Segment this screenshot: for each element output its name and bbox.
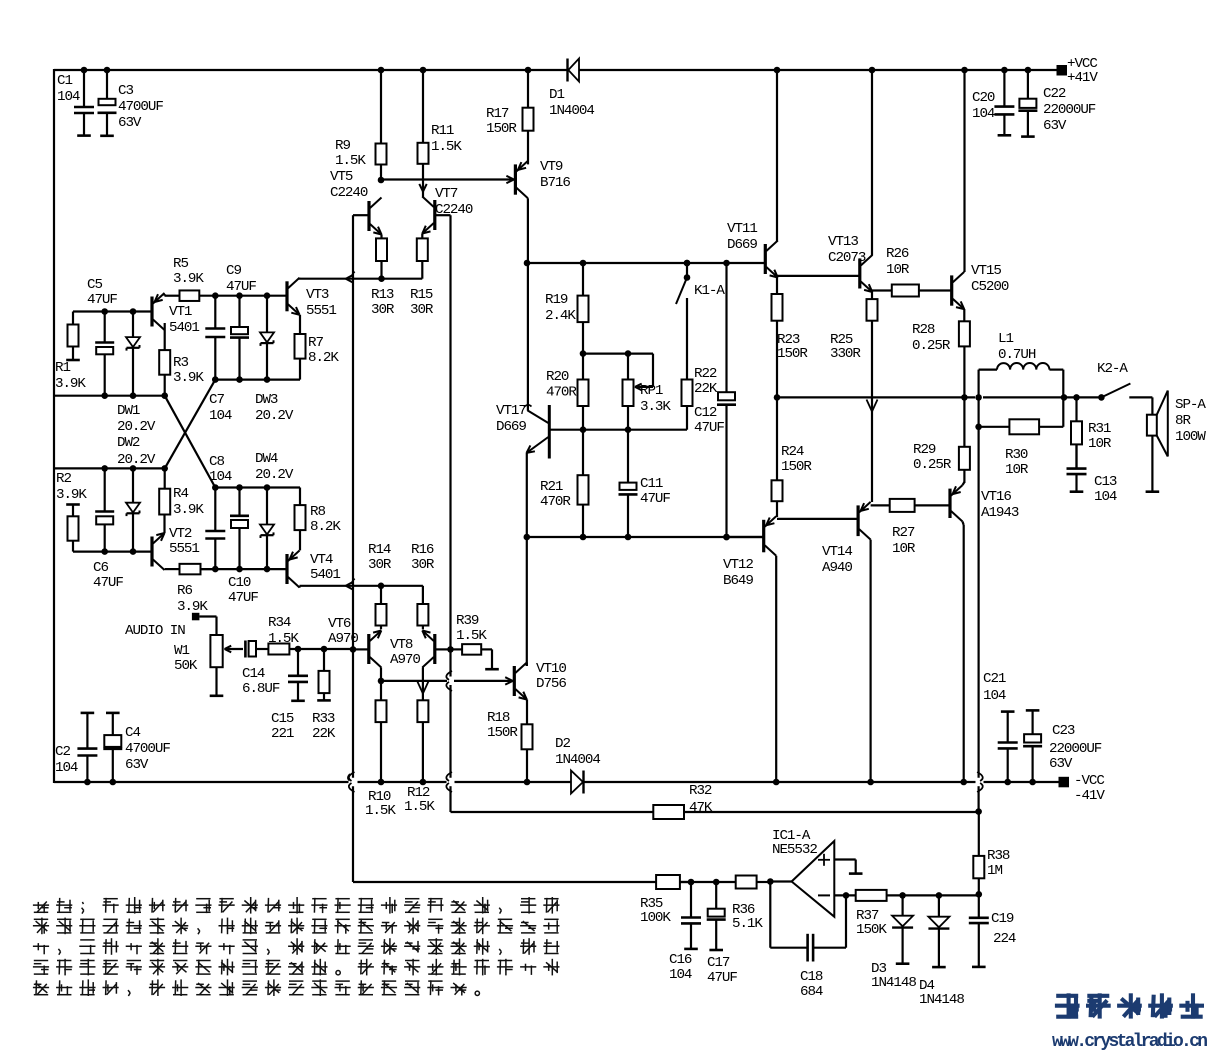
wire C8 block top [212,484,300,491]
svg-text:470R: 470R [540,494,571,510]
text declaration (Chinese) [33,897,560,996]
label C2 [55,744,78,776]
wire IC1 output [767,878,792,885]
wire servo input [353,881,656,883]
junction vmark VT8 collector [417,682,428,694]
label R16 [411,542,435,573]
wire VT10 base [381,680,511,682]
label VT1 [169,304,199,336]
resistor R33 [317,649,331,700]
svg-text:www.crystalradio.cn: www.crystalradio.cn [1052,1032,1208,1052]
svg-text:47UF: 47UF [228,590,258,606]
transistor VT10 [514,663,527,700]
svg-text:5401: 5401 [169,320,199,336]
svg-text:D2: D2 [555,736,570,752]
label R15 [410,287,434,318]
svg-text:63V: 63V [118,115,142,131]
zener DW1 [126,312,140,396]
svg-text:47UF: 47UF [694,420,724,436]
svg-text:10R: 10R [1005,462,1029,478]
svg-text:0.7UH: 0.7UH [998,347,1036,363]
resistor R20 [578,354,589,430]
svg-text:VT8: VT8 [390,637,413,653]
label R14 [368,542,392,573]
transistor VT15 [952,272,965,309]
label R20 [546,369,577,401]
capacitor C14 [245,641,268,658]
wire VT6 base [350,646,369,653]
svg-text:3.9K: 3.9K [55,376,86,392]
diode D1 [568,59,580,82]
resistor R36 [736,876,771,889]
svg-text:104: 104 [972,106,995,122]
svg-text:1.5K: 1.5K [268,631,299,647]
svg-text:8R: 8R [1175,413,1191,429]
label W1 [174,643,198,674]
label VT12 [723,557,753,589]
label R23 [777,332,808,362]
svg-text:R15: R15 [410,287,433,303]
wire VT13 collector [869,67,876,256]
svg-text:VT3: VT3 [306,287,329,303]
svg-text:-41V: -41V [1074,788,1105,804]
svg-text:C17: C17 [707,955,730,971]
svg-text:63V: 63V [1043,118,1067,134]
wire VT14 collector down [867,540,874,786]
speaker SP-A [1146,391,1168,492]
label R33 [312,711,336,742]
svg-text:30R: 30R [411,557,435,573]
svg-text:C2240: C2240 [435,202,473,218]
svg-text:C9: C9 [226,263,241,279]
svg-text:D1: D1 [549,87,564,103]
svg-text:VT1: VT1 [169,304,192,320]
label C3 [118,83,163,131]
svg-text:D756: D756 [536,676,566,692]
wire VT17 emitter down to VT10 collector [524,453,531,666]
wire C7 block bottom [212,376,300,383]
svg-text:VT11: VT11 [727,221,757,237]
resistor R3 [159,350,170,396]
svg-text:22000UF: 22000UF [1043,102,1096,118]
capacitor C21 [998,712,1018,786]
svg-text:R2: R2 [56,471,71,487]
svg-text:1.5K: 1.5K [431,139,462,155]
svg-text:R27: R27 [892,525,915,541]
transistor VT7 [422,197,435,234]
wire R17 to VT9 emitter [527,131,529,165]
resistor R24 [772,397,783,517]
wire VT1 emitter to R5 [165,294,180,296]
resistor R6 [180,564,216,575]
resistor R9 [376,67,387,184]
label SP-A [1175,397,1206,445]
wire VT4 collector [300,583,423,590]
svg-text:224: 224 [993,931,1016,947]
svg-text:R18: R18 [487,710,510,726]
svg-text:A940: A940 [822,560,852,576]
svg-text:8.2K: 8.2K [310,519,341,535]
svg-text:D669: D669 [496,419,526,435]
resistor R1 [66,312,80,361]
svg-text:3.9K: 3.9K [177,599,208,615]
svg-text:B649: B649 [723,573,753,589]
resistor R37 [856,890,979,901]
svg-text:22K: 22K [694,381,718,397]
svg-text:4700UF: 4700UF [118,99,163,115]
wire VT9 collector down VAS [524,198,531,411]
svg-text:R5: R5 [173,256,188,272]
label VT9 [540,159,570,191]
svg-text:W1: W1 [174,643,189,659]
svg-text:R38: R38 [987,848,1010,864]
wire VT16 collector down [960,522,967,786]
label R18 [487,710,518,741]
svg-text:221: 221 [271,726,294,742]
svg-text:R16: R16 [411,542,434,558]
svg-text:30R: 30R [371,302,395,318]
svg-text:C2240: C2240 [330,185,368,201]
junction arrow VT3 collector wire [346,272,355,283]
wire servo mid [680,879,736,886]
svg-text:R6: R6 [177,583,192,599]
svg-text:R13: R13 [371,287,394,303]
resistor R4 [159,468,170,514]
wire VT8 collector to R12 [422,668,424,701]
wire VT15 collector [961,67,968,272]
svg-text:0.25R: 0.25R [913,457,952,473]
wire +VCC top rail [54,69,1058,71]
svg-text:SP-A: SP-A [1175,397,1206,413]
label R7 [308,335,339,366]
label DW4 [255,451,294,483]
svg-text:VT10: VT10 [536,661,566,677]
svg-text:VT16: VT16 [981,489,1011,505]
svg-text:104: 104 [57,89,80,105]
svg-text:C8: C8 [209,454,224,470]
wire feedback R32 [451,811,654,813]
label R5 [173,256,204,287]
transistor VT2 [152,533,165,570]
svg-text:R29: R29 [913,442,936,458]
resistor R13 [376,238,387,278]
label C19 [991,911,1016,947]
svg-text:C15: C15 [271,711,294,727]
label R28 [912,322,951,354]
capacitor C15 [288,649,308,701]
wire output node [777,394,1105,401]
op-amp IC1-A [792,841,835,917]
label L1 [998,331,1036,363]
zener DW4 [260,488,274,570]
resistor R18 [522,724,533,785]
wire lower block bottom [73,548,152,555]
svg-text:R22: R22 [694,366,717,382]
label DW1 [117,403,156,435]
watermark logo text [1055,993,1204,1018]
resistor R27 [890,499,950,512]
svg-text:1.5K: 1.5K [335,153,366,169]
svg-text:C2: C2 [55,744,70,760]
wire IC1 noninv to ground [834,860,862,874]
label K2-A [1097,361,1128,377]
capacitor C7 [205,296,225,380]
svg-text:VT12: VT12 [723,557,753,573]
wire VAS bottom [527,534,764,541]
label C15 [271,711,294,742]
capacitor C16 [681,882,701,949]
svg-text:3.9K: 3.9K [56,487,87,503]
wire VT11 to VT13 base [777,275,860,277]
svg-text:20.2V: 20.2V [255,467,294,483]
svg-text:VT13: VT13 [828,234,858,250]
svg-text:5.1K: 5.1K [732,916,763,932]
label RP1 [640,383,671,415]
wire VT10 emitter to R18 [526,700,528,725]
potentiometer RP1 [623,354,654,430]
resistor R38 [973,812,984,898]
svg-text:C2073: C2073 [828,250,866,266]
svg-text:5551: 5551 [306,303,336,319]
resistor R12 [417,700,428,785]
hop x450 over VT10 base wire [446,671,452,691]
hop x978 over -VCC rail [977,772,983,792]
capacitor C9 [230,296,249,380]
capacitor C23 [1023,710,1042,785]
svg-text:A970: A970 [328,631,358,647]
label R4 [173,486,204,518]
svg-text:150K: 150K [856,922,887,938]
svg-text:R30: R30 [1005,447,1028,463]
svg-text:10R: 10R [886,262,910,278]
wire -VCC bottom rail [54,781,1060,783]
svg-text:1N4004: 1N4004 [555,752,600,768]
wire VT6 collector to R10 [378,668,385,701]
label VT17 [496,403,526,435]
wire K2-A to speaker [1129,396,1152,398]
svg-text:150R: 150R [781,459,812,475]
label VT11 [727,221,757,253]
svg-text:C3: C3 [118,83,133,99]
wire upper block bottom [54,392,168,399]
label VT4 [310,552,340,583]
label C22 [1043,86,1096,134]
wire VT8 base [435,646,454,653]
svg-text:VT17: VT17 [496,403,526,419]
resistor R34 [268,644,353,655]
svg-text:104: 104 [55,760,78,776]
resistor R32 [653,805,978,819]
label R13 [371,287,395,318]
wire VT15 emitter to R28 [963,309,965,321]
svg-text:1.5K: 1.5K [404,799,435,815]
svg-text:5551: 5551 [169,541,199,557]
svg-text:150R: 150R [486,121,517,137]
wire lower block top [54,465,168,472]
label R17 [486,106,517,137]
transistor VT17 [524,405,549,459]
label DW3 [255,392,294,424]
wire mirror bases [381,178,512,180]
svg-text:C13: C13 [1094,474,1117,490]
wire left border vertical [53,69,55,783]
svg-text:150R: 150R [487,725,518,741]
svg-text:4700UF: 4700UF [125,741,170,757]
resistor R31 [1071,397,1082,468]
wire diagonal lower-to-upper [165,380,216,469]
label C20 [972,90,995,122]
label VT15 [971,263,1009,295]
label C21 [983,671,1006,704]
capacitor C11 [619,430,638,537]
label C23 [1049,723,1102,772]
capacitor C19 [969,894,989,967]
svg-text:C22: C22 [1043,86,1066,102]
diode D2 [571,771,584,794]
svg-text:VT9: VT9 [540,159,563,175]
svg-text:C1: C1 [57,73,72,89]
svg-text:50K: 50K [174,658,198,674]
resistor R22 [682,380,693,430]
svg-text:104: 104 [983,688,1006,704]
wire output down to feedback [975,427,982,815]
label VT13 [828,234,866,266]
label R34 [268,615,299,647]
svg-text:C21: C21 [983,671,1006,687]
capacitor C1 [74,67,94,136]
transistor VT13 [860,255,873,292]
resistor R15 [417,238,428,278]
svg-text:DW3: DW3 [255,392,278,408]
svg-text:VT14: VT14 [822,544,852,560]
label R12 [404,785,435,815]
power terminal -VCC square [1059,777,1070,788]
label R6 [177,583,208,615]
svg-text:104: 104 [209,408,232,424]
label C10 [228,575,258,606]
label VT16 [981,489,1019,521]
transistor VT6 [369,631,382,668]
svg-text:2.4K: 2.4K [545,308,576,324]
svg-text:C12: C12 [694,405,717,421]
svg-text:B716: B716 [540,175,570,191]
svg-text:C10: C10 [228,575,251,591]
svg-text:3.9K: 3.9K [173,370,204,386]
label R36 [732,902,763,932]
svg-text:47UF: 47UF [707,970,737,986]
svg-text:DW1: DW1 [117,403,140,419]
label C5 [87,277,117,308]
wire VT1 collector to R3 [164,323,166,350]
svg-text:K2-A: K2-A [1097,361,1128,377]
svg-text:R17: R17 [486,106,509,122]
svg-text:R28: R28 [912,322,935,338]
svg-text:63V: 63V [1049,756,1073,772]
svg-text:20.2V: 20.2V [117,452,156,468]
resistor R16 [417,586,428,630]
svg-text:K1-A: K1-A [694,283,725,299]
label +VCC [1067,56,1098,86]
svg-text:22000UF: 22000UF [1049,741,1102,757]
wire VT13 emitter to R26 [872,289,892,291]
svg-text:C19: C19 [991,911,1014,927]
svg-text:+41V: +41V [1067,70,1098,86]
wire VT7 base [435,214,451,216]
label R21 [540,479,571,510]
svg-text:RP1: RP1 [640,383,663,399]
label C4 [125,725,170,773]
svg-text:R33: R33 [312,711,335,727]
svg-text:8.2K: 8.2K [308,350,339,366]
wire VT7 emitter to R15 [421,234,423,239]
svg-text:330R: 330R [830,346,861,362]
capacitor C12 [717,263,736,540]
svg-text:R20: R20 [546,369,569,385]
svg-text:47UF: 47UF [93,575,123,591]
capacitor C13 [1067,444,1087,491]
label C1 [57,73,80,105]
wire VT17 base [549,426,687,433]
svg-text:R19: R19 [545,292,568,308]
label VT6 [328,616,358,647]
junction vmark R25 output crossing [867,400,878,412]
svg-text:-VCC: -VCC [1074,773,1104,789]
svg-text:DW4: DW4 [255,451,278,467]
wire audio to W1 [199,617,216,636]
label R32 [689,783,713,816]
svg-text:10R: 10R [1088,436,1112,452]
capacitor C22 [1018,67,1037,137]
arrow VT7 collector [419,184,426,192]
capacitor C17 [707,882,726,950]
wire VT2 collector to R6 [165,568,180,571]
svg-text:R34: R34 [268,615,291,631]
label C12 [694,405,724,436]
label R35 [640,896,671,926]
svg-text:63V: 63V [125,757,149,773]
svg-text:VT4: VT4 [310,552,333,568]
resistor R30 [975,419,1063,434]
resistor R35 [656,875,691,889]
svg-text:VT6: VT6 [328,616,351,632]
label C8 [209,454,232,485]
wire upper block top [73,308,152,315]
svg-text:10R: 10R [892,541,916,557]
svg-text:3.9K: 3.9K [173,502,204,518]
transistor VT14 [858,502,871,540]
wire VT7 VT8 base rail [449,215,451,812]
resistor R17 [523,67,534,131]
arrow VT9 base [506,176,514,183]
label C13 [1094,474,1117,505]
svg-text:22K: 22K [312,726,336,742]
svg-text:C23: C23 [1052,723,1075,739]
capacitor C5 [95,312,114,396]
svg-text:C4: C4 [125,725,140,741]
svg-text:47UF: 47UF [640,491,670,507]
transistor VT1 [152,293,165,330]
svg-text:470R: 470R [546,385,577,401]
svg-text:VT2: VT2 [169,526,192,542]
wire VT14 emitter to R27 [871,504,890,506]
arrow VT10 base [505,677,513,684]
svg-text:104: 104 [1094,489,1117,505]
relay contact K2-A [1101,384,1130,398]
diode D3 [892,895,913,963]
svg-text:30R: 30R [410,302,434,318]
label VT3 [306,287,336,319]
label R9 [335,138,366,169]
